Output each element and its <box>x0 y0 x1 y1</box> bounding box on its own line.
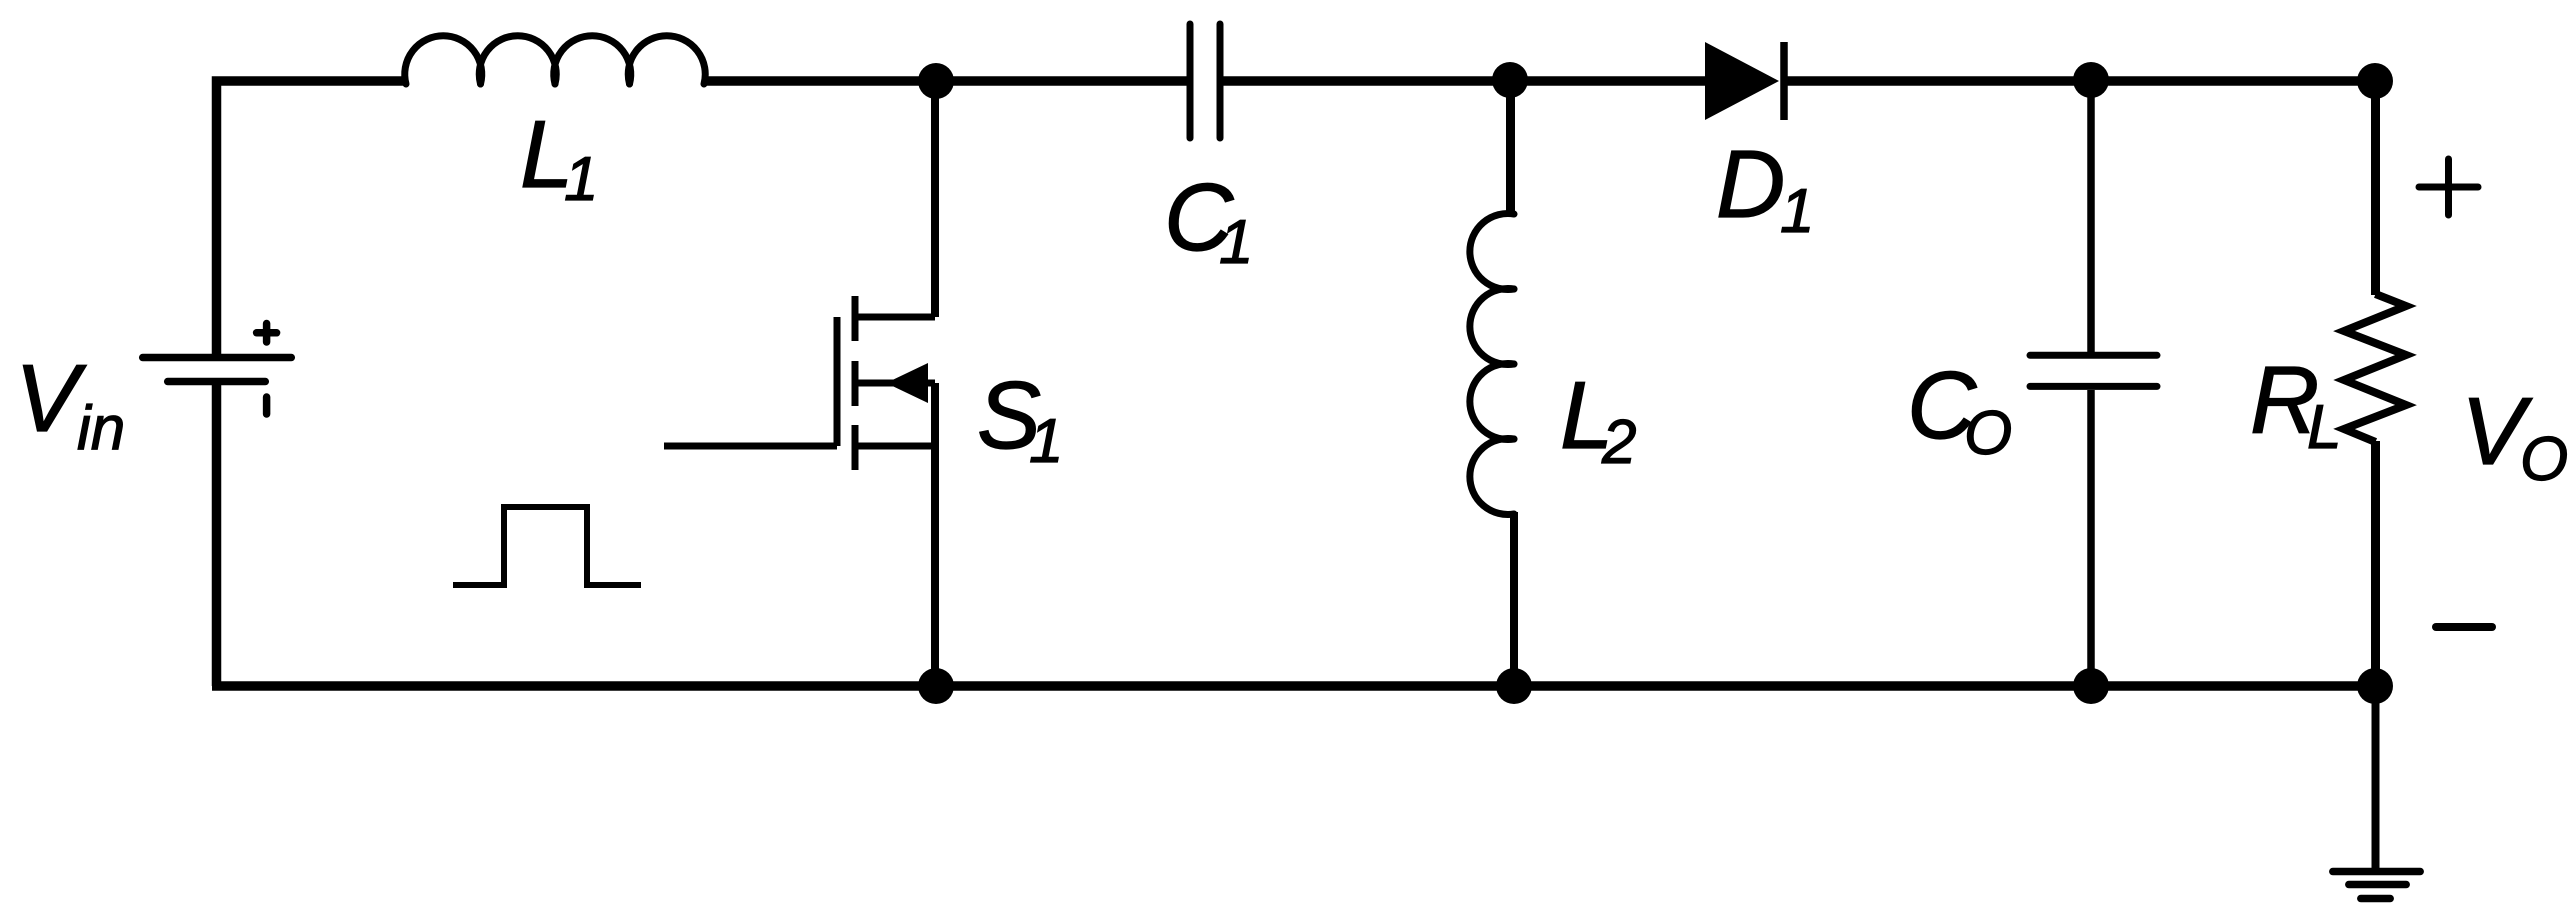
gate pulse symbol <box>453 507 641 585</box>
wire node B to diode D1 <box>1510 76 1708 86</box>
resistor RL <box>2344 294 2406 442</box>
capacitor CO top wire <box>2087 81 2095 352</box>
node H dot (RL bottom / ground) <box>2357 668 2393 704</box>
wire battery to bottom rail <box>212 385 222 686</box>
battery minus tick <box>263 397 271 414</box>
battery Vin <box>143 358 292 382</box>
node G dot (CO bottom) <box>2073 668 2109 704</box>
node E dot (S1 source, bottom) <box>918 668 954 704</box>
node C dot <box>2073 62 2109 98</box>
transistor S1 <box>664 296 935 470</box>
transistor S1 drain wire <box>931 81 939 317</box>
node A dot <box>918 63 954 99</box>
battery plus sign <box>257 324 277 343</box>
output minus sign <box>2436 623 2492 631</box>
wire C1 to node B <box>1223 76 1510 86</box>
wire D1 to node C <box>1781 76 2091 86</box>
transistor S1 source wire <box>931 383 939 686</box>
diode D1 <box>1705 42 1784 120</box>
wire bottom rail <box>212 681 2375 691</box>
capacitor C1 <box>1190 24 1220 138</box>
svg-text:L: L <box>2307 393 2341 462</box>
wire top-left from corner to L1 <box>217 81 407 354</box>
svg-text:1: 1 <box>1029 407 1063 476</box>
capacitor CO bottom wire <box>2087 390 2095 686</box>
wire node C to node D <box>2091 76 2375 86</box>
node F dot (L2 bottom) <box>1496 668 1532 704</box>
wire L2 to bottom node <box>1510 512 1518 686</box>
svg-text:in: in <box>77 394 125 463</box>
svg-text:1: 1 <box>1780 177 1814 246</box>
svg-text:O: O <box>2520 425 2568 494</box>
svg-text:D: D <box>1716 131 1785 238</box>
inductor L1 <box>405 36 706 84</box>
resistor RL top wire <box>2371 81 2380 295</box>
node D dot <box>2357 63 2393 99</box>
ground symbol <box>2333 872 2420 899</box>
node B dot <box>1492 62 1528 98</box>
inductor L2 <box>1470 214 1514 515</box>
capacitor CO <box>2030 355 2157 386</box>
output plus sign <box>2419 159 2478 215</box>
ground lead <box>2372 686 2380 871</box>
resistor RL bottom wire <box>2371 441 2380 686</box>
svg-text:1: 1 <box>1219 208 1253 277</box>
svg-text:O: O <box>1964 399 2012 468</box>
wire node B to L2 <box>1506 81 1515 216</box>
wire L1 to node A <box>702 76 936 86</box>
svg-text:2: 2 <box>1601 408 1636 477</box>
svg-text:1: 1 <box>564 145 598 214</box>
wire node A to C1 <box>936 76 1187 86</box>
